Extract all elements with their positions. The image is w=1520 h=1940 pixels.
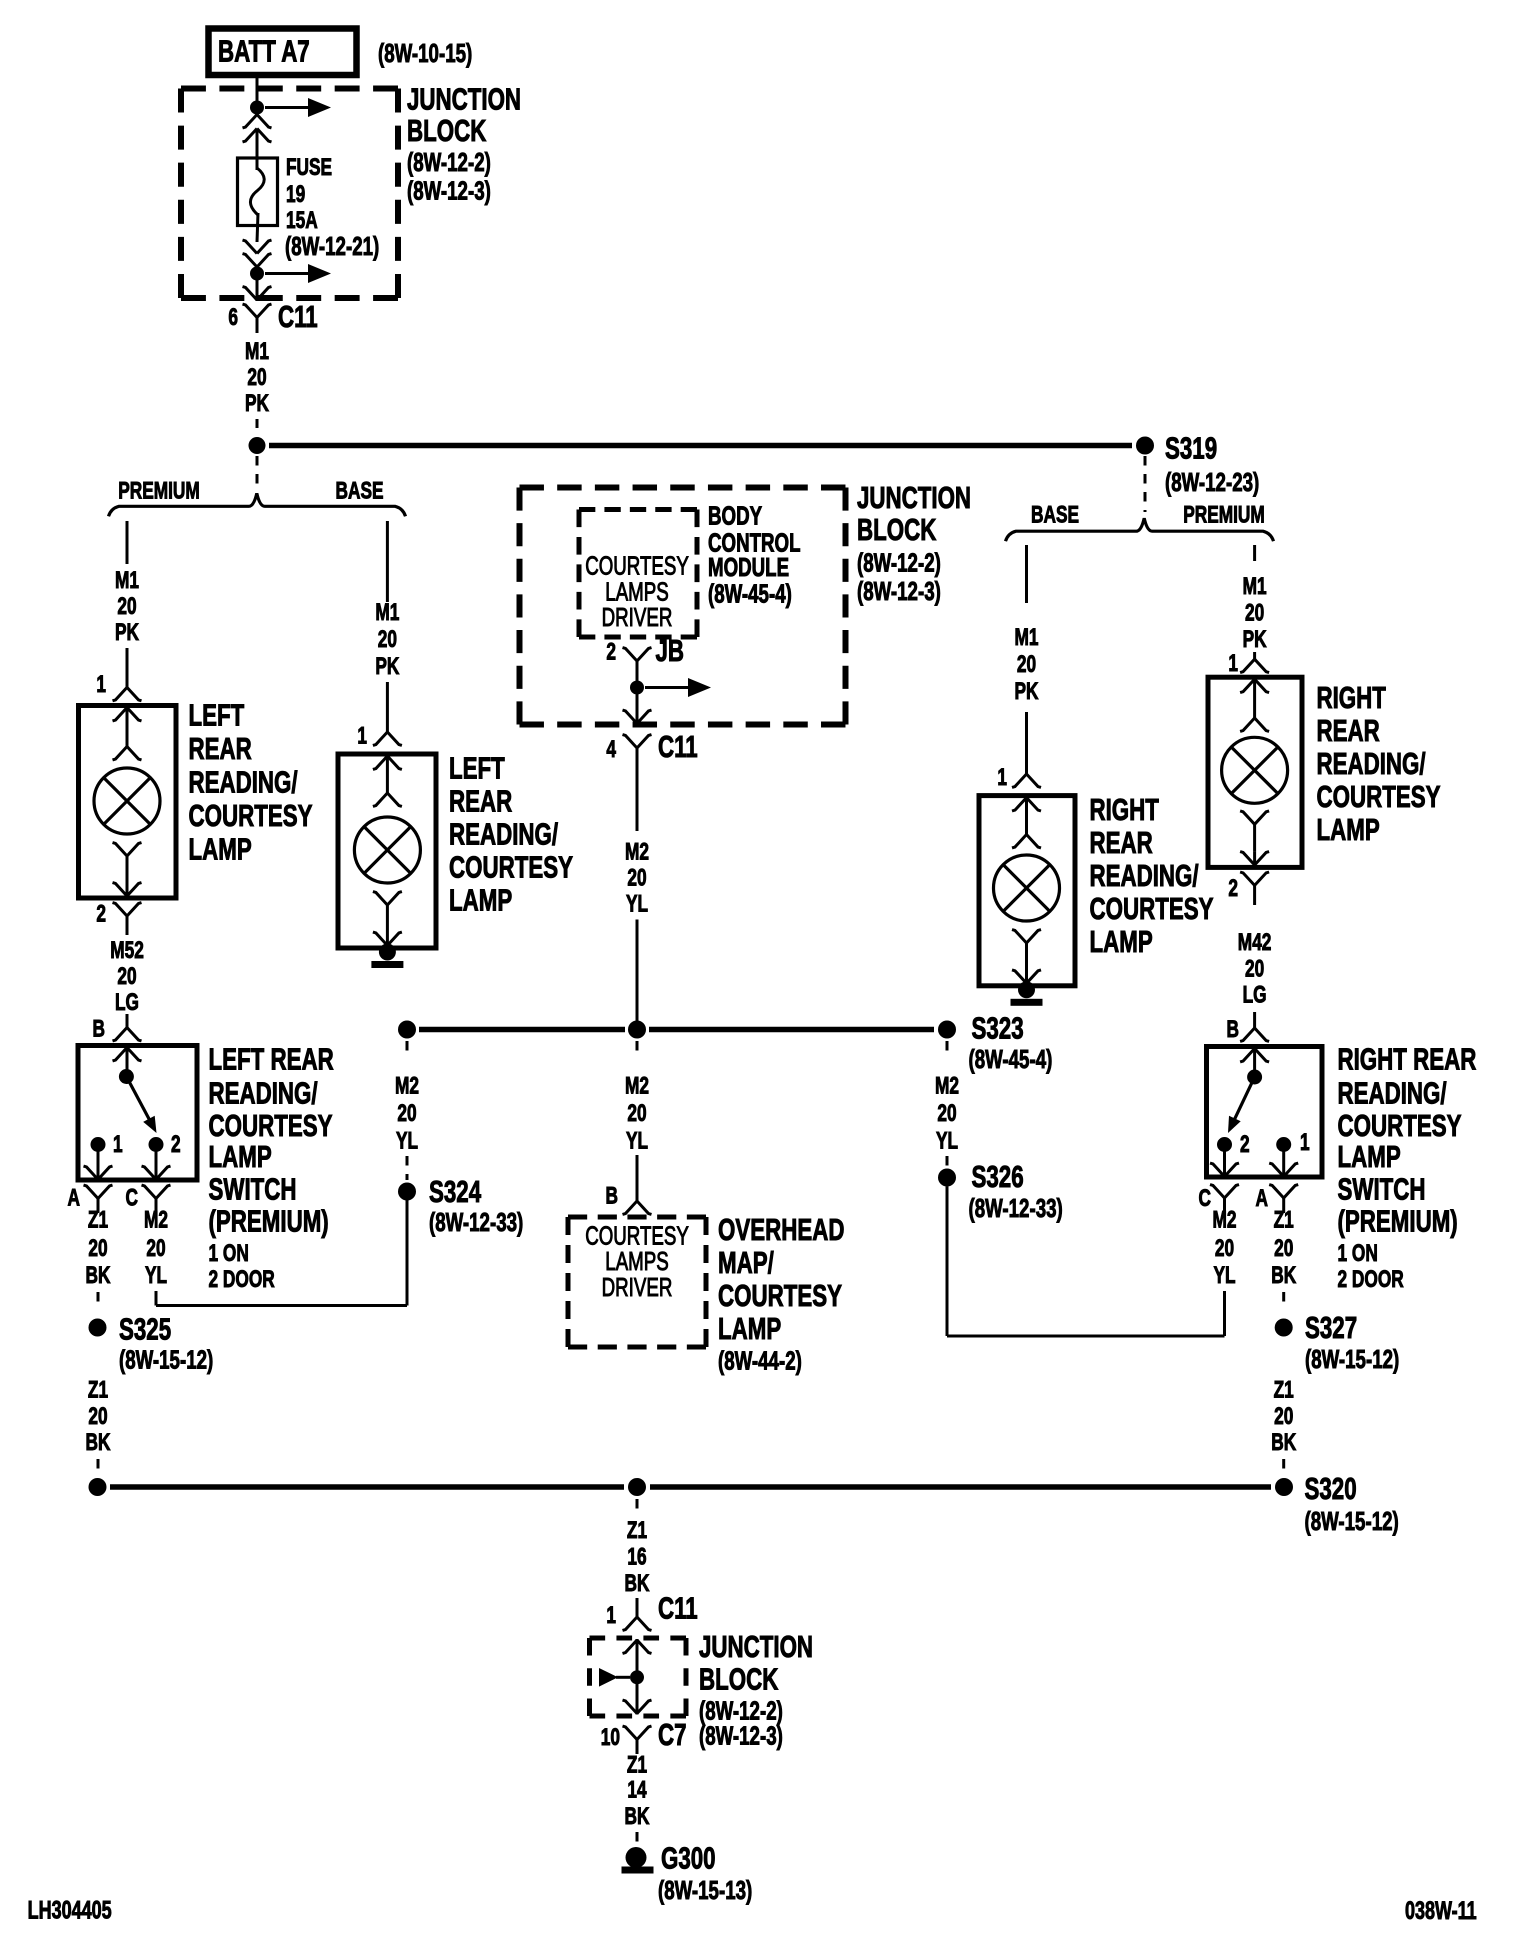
male pin top of right premium lamp xyxy=(1253,678,1256,718)
bulb socket female inside right base lamp xyxy=(1012,835,1041,848)
svg-text:LG: LG xyxy=(115,989,139,1015)
svg-text:B: B xyxy=(1227,1016,1239,1042)
male pin bottom of left base lamp xyxy=(386,933,389,947)
svg-text:LAMP: LAMP xyxy=(1090,924,1153,958)
svg-text:LH304405: LH304405 xyxy=(28,1896,112,1925)
bulb socket female inside left base lamp xyxy=(373,793,402,806)
dashed wire to S327 xyxy=(1282,1292,1285,1303)
male pin top of left base lamp xyxy=(386,755,389,793)
svg-text:20: 20 xyxy=(247,364,266,390)
connector C7 cavity 10 female xyxy=(636,1740,639,1755)
bulb socket female inside left lamp xyxy=(113,747,142,760)
svg-text:2: 2 xyxy=(1228,875,1238,901)
svg-text:M2: M2 xyxy=(625,839,649,865)
svg-text:LG: LG xyxy=(1243,982,1267,1008)
junction node with feed arrow (bottom block) xyxy=(630,1670,644,1684)
svg-text:C7: C7 xyxy=(658,1717,687,1751)
svg-text:COURTESY: COURTESY xyxy=(1090,891,1214,925)
splice S323 xyxy=(938,1021,956,1039)
svg-text:RIGHT: RIGHT xyxy=(1090,792,1160,826)
male pin B inside left switch xyxy=(126,1047,129,1071)
svg-text:19: 19 xyxy=(286,181,305,207)
connector B female into overhead lamp xyxy=(636,1155,639,1201)
svg-text:1: 1 xyxy=(1300,1129,1310,1155)
svg-text:YL: YL xyxy=(936,1128,958,1154)
svg-text:READING/: READING/ xyxy=(1090,858,1199,892)
wire right base branch xyxy=(1025,545,1028,603)
svg-text:1: 1 xyxy=(113,1131,123,1157)
connector pin 1 female into right premium lamp xyxy=(1253,652,1256,659)
splice node left end of ground bus xyxy=(89,1478,107,1496)
svg-text:M1: M1 xyxy=(245,338,269,364)
svg-text:2 DOOR: 2 DOOR xyxy=(1338,1266,1404,1292)
svg-text:READING/: READING/ xyxy=(449,817,558,851)
svg-text:LAMP: LAMP xyxy=(718,1311,781,1345)
splice node above bus xyxy=(249,437,266,454)
switch pin 2 node xyxy=(149,1137,164,1152)
right rear reading/courtesy lamp (base) box xyxy=(979,796,1075,986)
svg-text:2 DOOR: 2 DOOR xyxy=(209,1266,275,1292)
junction block (top) dashed box xyxy=(181,86,398,92)
wire premium branch xyxy=(126,521,129,564)
right switch throw arrow xyxy=(1233,1077,1254,1122)
svg-text:BK: BK xyxy=(1271,1429,1296,1455)
svg-text:REAR: REAR xyxy=(189,732,252,766)
svg-text:M1: M1 xyxy=(375,599,399,625)
wire right premium branch xyxy=(1253,545,1256,561)
battery feed BATT A7 xyxy=(209,29,357,76)
svg-text:COURTESY: COURTESY xyxy=(189,798,313,832)
svg-text:Z1: Z1 xyxy=(1274,1377,1294,1403)
case ground left base lamp xyxy=(379,944,396,961)
svg-text:2: 2 xyxy=(1240,1131,1250,1157)
svg-text:SWITCH: SWITCH xyxy=(1338,1172,1426,1206)
svg-text:10: 10 xyxy=(601,1724,620,1750)
connector C11 cavity 6 female xyxy=(256,318,259,334)
svg-text:BK: BK xyxy=(86,1262,111,1288)
svg-text:REAR: REAR xyxy=(1317,713,1380,747)
svg-text:20: 20 xyxy=(397,1100,416,1126)
svg-text:YL: YL xyxy=(626,1128,648,1154)
junction node with feed arrow (BCM) xyxy=(630,681,644,695)
svg-text:S327: S327 xyxy=(1305,1310,1357,1344)
svg-text:(PREMIUM): (PREMIUM) xyxy=(1338,1204,1458,1238)
svg-text:20: 20 xyxy=(937,1100,956,1126)
male pin 2 bottom of right switch xyxy=(1223,1145,1226,1178)
svg-text:A: A xyxy=(68,1185,80,1211)
right switch pin 2 node xyxy=(1217,1137,1232,1152)
svg-text:M2: M2 xyxy=(935,1073,959,1099)
svg-text:(8W-12-2): (8W-12-2) xyxy=(857,547,941,577)
ground bus wire xyxy=(110,1484,624,1490)
wire below fuse xyxy=(257,213,258,242)
svg-text:COURTESY: COURTESY xyxy=(449,850,573,884)
svg-text:JUNCTION: JUNCTION xyxy=(857,480,971,514)
svg-text:BK: BK xyxy=(625,1570,650,1596)
bulb socket lower female left base lamp xyxy=(386,905,389,933)
svg-text:JUNCTION: JUNCTION xyxy=(407,82,521,116)
svg-text:Z1: Z1 xyxy=(1274,1207,1294,1233)
male pin bottom of right base lamp xyxy=(1025,971,1028,985)
svg-text:(8W-15-12): (8W-15-12) xyxy=(119,1344,213,1374)
ground G300 xyxy=(626,1847,647,1868)
svg-text:PK: PK xyxy=(115,619,139,645)
left rear reading/courtesy lamp (premium) box xyxy=(79,706,177,899)
svg-text:LAMP: LAMP xyxy=(189,832,252,866)
svg-text:BK: BK xyxy=(86,1429,111,1455)
wire into fuse xyxy=(256,129,259,170)
svg-text:(8W-15-13): (8W-15-13) xyxy=(658,1875,752,1905)
dashed wire + label M2 20 YL (S324 branch) xyxy=(406,1041,409,1056)
right rear reading/courtesy lamp (premium) box xyxy=(1208,677,1302,867)
svg-text:DRIVER: DRIVER xyxy=(602,1272,673,1302)
inline disconnect chevrons above fuse xyxy=(243,115,272,128)
case ground right base lamp xyxy=(1018,981,1035,998)
inline disconnect chevrons below fuse xyxy=(243,240,272,253)
svg-text:20: 20 xyxy=(1274,1235,1293,1261)
splice S320 xyxy=(1275,1478,1293,1496)
svg-text:(8W-45-4): (8W-45-4) xyxy=(969,1044,1053,1074)
right switch pivot node xyxy=(1247,1070,1262,1085)
right rear reading/courtesy lamp switch (premium) box xyxy=(1207,1047,1323,1178)
svg-text:M2: M2 xyxy=(144,1207,168,1233)
male pin 1 bottom of switch xyxy=(97,1145,100,1181)
svg-text:YL: YL xyxy=(626,891,648,917)
top bus wire to S319 xyxy=(269,443,1132,449)
svg-text:M52: M52 xyxy=(110,937,144,963)
junction node with feed arrow (lower) xyxy=(250,267,264,281)
svg-text:S324: S324 xyxy=(429,1175,481,1209)
svg-text:20: 20 xyxy=(378,626,397,652)
dashed wire to ground bus (right) xyxy=(1282,1459,1285,1470)
connector A female below switch xyxy=(97,1199,100,1214)
svg-text:JUNCTION: JUNCTION xyxy=(699,1629,813,1663)
dashed wire to S325 xyxy=(97,1292,100,1303)
connector pin 2 female below right premium lamp xyxy=(1253,885,1256,905)
svg-text:20: 20 xyxy=(1274,1403,1293,1429)
svg-text:C: C xyxy=(1199,1185,1211,1211)
svg-text:S319: S319 xyxy=(1165,431,1217,465)
svg-text:(8W-15-12): (8W-15-12) xyxy=(1305,1506,1399,1536)
svg-text:RIGHT REAR: RIGHT REAR xyxy=(1338,1042,1477,1076)
connector pin B female into right switch xyxy=(1253,1012,1256,1028)
svg-text:20: 20 xyxy=(1017,651,1036,677)
svg-text:B: B xyxy=(93,1016,105,1042)
svg-text:PK: PK xyxy=(1243,626,1267,652)
svg-text:FUSE: FUSE xyxy=(286,154,332,180)
svg-text:1 ON: 1 ON xyxy=(209,1240,249,1266)
splice node center of middle bus xyxy=(628,1021,646,1039)
left rear reading/courtesy lamp switch (premium) box xyxy=(78,1046,197,1181)
svg-text:1 ON: 1 ON xyxy=(1338,1240,1378,1266)
svg-text:PREMIUM: PREMIUM xyxy=(1183,502,1265,528)
svg-text:C11: C11 xyxy=(658,1591,698,1625)
svg-text:READING/: READING/ xyxy=(1317,746,1426,780)
bulb socket lower female left lamp xyxy=(126,856,129,884)
connector pin B female into left switch xyxy=(126,1014,129,1028)
connector pin 1 female into right base lamp xyxy=(1025,712,1028,774)
right harness brace BASE/PREMIUM xyxy=(1006,518,1274,541)
connector pin 1 female into left lamp xyxy=(126,648,129,687)
connector A female below right switch xyxy=(1282,1198,1285,1213)
svg-text:BASE: BASE xyxy=(335,478,383,504)
svg-text:PREMIUM: PREMIUM xyxy=(118,478,200,504)
svg-text:BLOCK: BLOCK xyxy=(699,1662,779,1696)
splice S324 xyxy=(398,1183,416,1201)
svg-text:A: A xyxy=(1256,1185,1268,1211)
dashed wire to right brace xyxy=(1144,456,1147,512)
switch throw arrow xyxy=(126,1077,150,1123)
svg-text:(8W-12-33): (8W-12-33) xyxy=(429,1207,523,1237)
svg-text:20: 20 xyxy=(88,1235,107,1261)
svg-text:M1: M1 xyxy=(1243,573,1267,599)
connector pin 1 female into left base lamp xyxy=(386,682,389,732)
svg-text:M1: M1 xyxy=(115,567,139,593)
svg-text:(8W-45-4): (8W-45-4) xyxy=(708,578,792,608)
svg-text:2: 2 xyxy=(171,1131,181,1157)
dashed wire + label M2 20 YL (S326 branch) xyxy=(946,1041,949,1056)
svg-text:(8W-12-23): (8W-12-23) xyxy=(1165,467,1259,497)
svg-text:1: 1 xyxy=(997,764,1007,790)
svg-text:(8W-44-2): (8W-44-2) xyxy=(718,1345,802,1375)
bulb symbol right premium lamp xyxy=(1222,737,1288,803)
dashed wire to ground bus xyxy=(97,1459,100,1470)
male pin 2 bottom of switch xyxy=(155,1145,158,1181)
svg-text:READING/: READING/ xyxy=(209,1076,318,1110)
svg-text:(8W-12-3): (8W-12-3) xyxy=(407,175,491,205)
svg-text:MAP/: MAP/ xyxy=(718,1245,774,1279)
svg-text:S320: S320 xyxy=(1305,1471,1357,1505)
svg-text:BATT A7: BATT A7 xyxy=(218,34,310,68)
svg-text:038W-11: 038W-11 xyxy=(1405,1896,1477,1925)
svg-text:M2: M2 xyxy=(395,1073,419,1099)
svg-text:C11: C11 xyxy=(278,299,318,333)
male pin bottom of right premium lamp xyxy=(1253,851,1256,866)
svg-text:C11: C11 xyxy=(658,729,698,763)
bulb socket female inside right premium lamp xyxy=(1240,718,1269,731)
svg-text:2: 2 xyxy=(96,901,106,927)
male pin through junction block bottom edge xyxy=(256,274,259,302)
svg-text:20: 20 xyxy=(1215,1235,1234,1261)
svg-text:20: 20 xyxy=(88,1403,107,1429)
connector JB cavity 2 female xyxy=(636,661,639,681)
svg-text:20: 20 xyxy=(117,963,136,989)
dashed wire to G300 xyxy=(636,1832,639,1843)
svg-text:PK: PK xyxy=(375,653,399,679)
svg-text:20: 20 xyxy=(1245,956,1264,982)
bulb symbol right base lamp xyxy=(994,855,1060,921)
svg-text:LEFT REAR: LEFT REAR xyxy=(209,1042,334,1076)
wire M2 YL from switch C to S324 xyxy=(155,1291,158,1306)
male pin bottom of left lamp xyxy=(126,884,129,897)
male pin into bottom junction block xyxy=(636,1639,639,1677)
svg-text:S325: S325 xyxy=(119,1312,171,1346)
svg-text:Z1: Z1 xyxy=(627,1517,647,1543)
male pin top of left lamp xyxy=(126,707,129,747)
connector pin 2 female below left lamp xyxy=(126,916,129,935)
svg-text:20: 20 xyxy=(146,1235,165,1261)
junction node with feed arrow (top) xyxy=(250,101,264,115)
svg-text:(PREMIUM): (PREMIUM) xyxy=(209,1204,329,1238)
switch pivot node xyxy=(119,1069,134,1084)
male pin through bottom block lower edge xyxy=(636,1677,639,1714)
svg-text:1: 1 xyxy=(357,723,367,749)
wire M2 YL from S326 to right switch C xyxy=(946,1187,949,1337)
svg-text:M2: M2 xyxy=(625,1073,649,1099)
connector C female below right switch xyxy=(1223,1198,1226,1213)
svg-text:B: B xyxy=(606,1183,618,1209)
junction block (bottom) dashed box xyxy=(590,1636,687,1641)
svg-text:COURTESY: COURTESY xyxy=(1338,1108,1462,1142)
svg-text:20: 20 xyxy=(627,865,646,891)
overhead map/courtesy lamp dashed box xyxy=(568,1215,706,1220)
svg-text:20: 20 xyxy=(117,593,136,619)
svg-text:Z1: Z1 xyxy=(88,1207,108,1233)
splice node center of ground bus xyxy=(628,1478,646,1496)
svg-text:BASE: BASE xyxy=(1031,502,1079,528)
middle bus wire xyxy=(419,1027,625,1033)
svg-text:BLOCK: BLOCK xyxy=(857,512,937,546)
connector C female below switch xyxy=(155,1199,158,1214)
dashed wire below ground bus xyxy=(636,1499,639,1512)
svg-text:C: C xyxy=(126,1185,138,1211)
svg-text:PK: PK xyxy=(1014,678,1038,704)
male pin B inside right switch xyxy=(1253,1048,1256,1071)
svg-text:(8W-12-3): (8W-12-3) xyxy=(857,576,941,606)
splice S326 xyxy=(938,1169,956,1187)
svg-text:YL: YL xyxy=(396,1128,418,1154)
splice S327 xyxy=(1275,1319,1293,1337)
svg-text:YL: YL xyxy=(145,1262,167,1288)
svg-text:20: 20 xyxy=(1245,600,1264,626)
svg-text:BK: BK xyxy=(625,1803,650,1829)
left rear reading/courtesy lamp (base) box xyxy=(338,754,436,948)
svg-text:DRIVER: DRIVER xyxy=(602,602,673,632)
svg-text:1: 1 xyxy=(1228,650,1238,676)
wire BATT to junction dot xyxy=(256,75,259,101)
svg-text:LAMP: LAMP xyxy=(1317,812,1380,846)
svg-text:Z1: Z1 xyxy=(88,1377,108,1403)
male pin 1 bottom of right switch xyxy=(1282,1145,1285,1178)
male pin through BCM box bottom edge xyxy=(636,688,639,725)
svg-text:(8W-12-21): (8W-12-21) xyxy=(285,231,379,261)
svg-text:LAMP: LAMP xyxy=(449,883,512,917)
svg-text:(8W-12-2): (8W-12-2) xyxy=(407,147,491,177)
svg-text:S326: S326 xyxy=(972,1160,1024,1194)
svg-text:READING/: READING/ xyxy=(1338,1076,1447,1110)
svg-text:G300: G300 xyxy=(661,1841,716,1875)
svg-text:(8W-12-33): (8W-12-33) xyxy=(969,1193,1063,1223)
male pin top of right base lamp xyxy=(1025,797,1028,835)
svg-text:REAR: REAR xyxy=(449,784,512,818)
svg-text:JB: JB xyxy=(656,633,685,667)
wire base branch xyxy=(386,521,389,602)
svg-text:1: 1 xyxy=(606,1602,616,1628)
svg-text:15A: 15A xyxy=(286,207,318,233)
splice node left of middle bus xyxy=(398,1021,416,1039)
body control module dashed box xyxy=(520,485,846,491)
svg-text:M1: M1 xyxy=(1014,624,1038,650)
splice S319 xyxy=(1136,437,1154,455)
bulb socket lower female right base lamp xyxy=(1025,943,1028,971)
svg-text:COURTESY: COURTESY xyxy=(718,1278,842,1312)
svg-text:LEFT: LEFT xyxy=(449,751,505,785)
svg-text:S323: S323 xyxy=(972,1011,1024,1045)
svg-text:PK: PK xyxy=(245,390,269,416)
svg-text:(8W-12-3): (8W-12-3) xyxy=(699,1720,783,1750)
svg-text:BODY: BODY xyxy=(708,500,762,530)
svg-text:YL: YL xyxy=(1213,1262,1235,1288)
svg-text:READING/: READING/ xyxy=(189,765,298,799)
svg-text:6: 6 xyxy=(228,304,238,330)
svg-text:Z1: Z1 xyxy=(627,1752,647,1778)
svg-text:REAR: REAR xyxy=(1090,825,1153,859)
svg-text:20: 20 xyxy=(627,1100,646,1126)
right switch pin 1 node xyxy=(1276,1137,1291,1152)
switch pin 1 node xyxy=(91,1137,106,1152)
svg-text:BLOCK: BLOCK xyxy=(407,113,487,147)
bulb symbol left base lamp xyxy=(354,817,420,883)
svg-text:COURTESY: COURTESY xyxy=(1317,779,1441,813)
dashed wire + label M2 20 YL (center overhead branch) xyxy=(636,1041,639,1056)
svg-text:(8W-10-15): (8W-10-15) xyxy=(378,38,472,68)
svg-text:LAMP: LAMP xyxy=(209,1139,272,1173)
svg-text:LAMP: LAMP xyxy=(1338,1139,1401,1173)
svg-text:4: 4 xyxy=(606,736,616,762)
splice S325 xyxy=(89,1319,107,1337)
svg-text:1: 1 xyxy=(96,671,106,697)
svg-text:COURTESY: COURTESY xyxy=(209,1108,333,1142)
connector C11 cavity 4 female xyxy=(636,748,639,767)
svg-text:RIGHT: RIGHT xyxy=(1317,680,1387,714)
courtesy lamps driver dashed box (BCM) xyxy=(579,507,697,512)
fuse 19 15A xyxy=(238,158,278,226)
left harness brace PREMIUM/BASE xyxy=(109,493,406,516)
svg-text:(8W-15-12): (8W-15-12) xyxy=(1305,1344,1399,1374)
svg-text:SWITCH: SWITCH xyxy=(209,1172,297,1206)
bulb socket lower female right premium lamp xyxy=(1253,824,1256,851)
svg-text:M2: M2 xyxy=(1212,1207,1236,1233)
svg-text:LEFT: LEFT xyxy=(189,698,245,732)
svg-text:M42: M42 xyxy=(1238,929,1272,955)
svg-text:14: 14 xyxy=(627,1777,647,1803)
bulb symbol left lamp xyxy=(94,768,160,834)
svg-text:16: 16 xyxy=(627,1544,646,1570)
connector C11 cavity 1 female xyxy=(636,1598,639,1617)
svg-text:BK: BK xyxy=(1271,1262,1296,1288)
dashed wire to left brace xyxy=(256,456,259,490)
svg-text:OVERHEAD: OVERHEAD xyxy=(718,1212,844,1246)
svg-text:2: 2 xyxy=(606,639,616,665)
wire M2 20 YL (center) xyxy=(636,767,639,831)
